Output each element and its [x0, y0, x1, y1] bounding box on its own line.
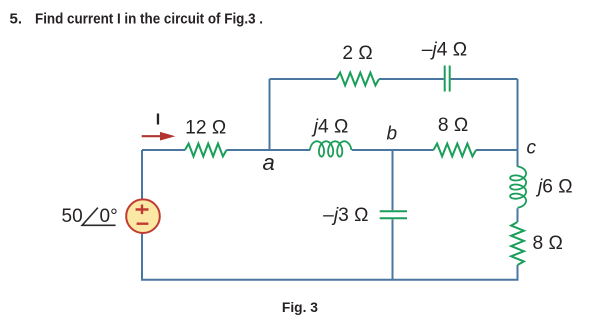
capacitor −j3Ω	[380, 211, 407, 218]
svg-text:I: I	[156, 112, 160, 129]
resistor 8Ω (middle)	[434, 144, 477, 157]
svg-text:b: b	[387, 124, 398, 145]
svg-text:5.: 5.	[10, 11, 23, 28]
svg-text:50: 50	[62, 206, 83, 227]
svg-text:j6 Ω: j6 Ω	[535, 176, 573, 197]
resistor 2Ω	[337, 73, 380, 86]
svg-text:8 Ω: 8 Ω	[533, 233, 563, 254]
svg-text:0°: 0°	[100, 206, 118, 227]
wire: vertical at node a up to top branch	[269, 79, 271, 150]
wire: bottom horizontal	[141, 279, 519, 281]
svg-text:a: a	[263, 150, 275, 175]
svg-text:–j3 Ω: –j3 Ω	[323, 205, 368, 226]
label 50∠0°	[62, 206, 118, 227]
svg-text:c: c	[527, 138, 537, 159]
current arrow I	[142, 132, 176, 141]
svg-text:Fig. 3: Fig. 3	[282, 300, 318, 315]
title: problem statement	[10, 11, 264, 28]
wire: vertical at node b down to bottom	[392, 150, 394, 280]
svg-text:12 Ω: 12 Ω	[185, 118, 226, 139]
wire: top horizontal branch	[270, 78, 518, 80]
svg-text:j4 Ω: j4 Ω	[311, 117, 349, 138]
resistor 8Ω (right)	[511, 222, 524, 265]
svg-text:8 Ω: 8 Ω	[438, 115, 468, 136]
capacitor −j4Ω	[445, 66, 450, 92]
voltage source 50∠0°	[126, 199, 160, 233]
inductor j6Ω	[510, 166, 526, 207]
svg-text:–j4 Ω: –j4 Ω	[422, 40, 467, 61]
svg-text:2 Ω: 2 Ω	[342, 43, 372, 64]
wire: right vertical (node c branch)	[517, 79, 519, 280]
inductor j4Ω	[310, 141, 351, 156]
resistor 12Ω	[185, 144, 227, 157]
wire: left vertical through source	[141, 150, 143, 280]
svg-text:Find current I in the circuit: Find current I in the circuit of Fig.3 .	[35, 11, 263, 28]
wire: middle horizontal (source top to node c)	[142, 149, 518, 151]
